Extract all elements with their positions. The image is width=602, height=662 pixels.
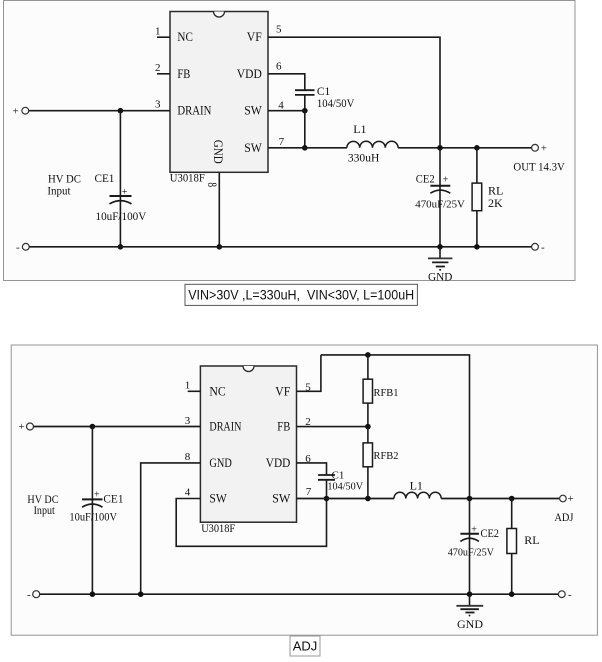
svg-text:CE1: CE1 [95, 173, 115, 185]
svg-text:104/50V: 104/50V [327, 480, 363, 492]
svg-text:U3018F: U3018F [170, 173, 205, 185]
node pin8 rail junction [217, 244, 223, 250]
svg-text:8: 8 [185, 451, 191, 463]
capacitor CE2 plates [430, 174, 450, 193]
svg-text:+: + [471, 524, 477, 535]
frame bottom circuit [11, 345, 597, 635]
svg-text:1: 1 [185, 380, 191, 392]
wire C1 bottom to pin7 line [326, 480, 328, 499]
node pin4 junction [302, 108, 308, 114]
svg-text:ADJ: ADJ [554, 512, 574, 524]
wire bottom rail [40, 593, 558, 595]
wire SW pin7 stub [268, 147, 347, 149]
svg-text:VDD: VDD [237, 67, 262, 81]
svg-text:6: 6 [276, 61, 282, 73]
svg-text:7: 7 [279, 136, 285, 148]
frame top circuit [4, 1, 576, 281]
node pin7 junction [302, 145, 308, 151]
wire SW pin7 to L1 [297, 498, 395, 500]
node RL top junction [474, 145, 480, 151]
wire VDD pin6 to C1 [268, 74, 305, 90]
svg-text:Input: Input [34, 503, 56, 517]
ground symbol bottom [456, 594, 483, 615]
wire C1 bottom to SW pin4 [304, 95, 306, 111]
output + terminal [560, 493, 574, 505]
svg-text:GND: GND [428, 271, 452, 283]
svg-text:5: 5 [276, 23, 282, 35]
svg-text:Input: Input [47, 184, 71, 198]
caption box ADJ [290, 636, 320, 656]
svg-text:3: 3 [155, 99, 161, 111]
svg-text:CE2: CE2 [481, 528, 500, 540]
input - terminal [16, 241, 29, 253]
node RFB1 top junction [365, 352, 371, 358]
svg-text:SW: SW [244, 104, 262, 118]
label RL 2K [488, 184, 503, 210]
capacitor CE2 plates [460, 524, 479, 541]
wire CE1 vertical [119, 111, 121, 247]
svg-text:SW: SW [209, 492, 227, 506]
inductor L1 [347, 141, 398, 148]
svg-text:470uF/25V: 470uF/25V [415, 199, 465, 211]
ground symbol top [428, 247, 452, 270]
input + terminal [13, 105, 29, 117]
capacitor CE1 plates [110, 187, 132, 204]
capacitor CE1 plates [82, 489, 103, 507]
node RL rail junction [509, 591, 515, 597]
input - terminal [27, 589, 40, 601]
output + terminal [532, 143, 547, 155]
svg-text:VF: VF [275, 384, 290, 398]
svg-text:10uF/100V: 10uF/100V [96, 211, 147, 223]
op IC U1 body U3018F [170, 12, 268, 173]
resistor RFB1 [363, 355, 372, 427]
svg-text:OUT 14.3V: OUT 14.3V [513, 161, 565, 173]
wire input+ to DRAIN pin3 [34, 426, 201, 428]
wire CE2 vertical [439, 148, 441, 247]
svg-text:CE2: CE2 [416, 173, 435, 185]
node FB junction [365, 424, 371, 430]
node CE1 bottom junction [118, 244, 124, 250]
pin 1 stub [157, 36, 170, 38]
node RL rail junction [474, 244, 480, 250]
svg-text:GND: GND [211, 140, 225, 164]
svg-text:GND: GND [209, 456, 231, 470]
wire IC pin8 to bottom rail [218, 172, 220, 247]
svg-text:330uH: 330uH [348, 150, 380, 164]
svg-text:+: + [122, 187, 128, 198]
svg-text:+: + [94, 489, 100, 500]
output - terminal [558, 589, 572, 601]
resistor RL [507, 499, 517, 595]
node CE1 top junction [90, 424, 96, 430]
node CE2 top junction [467, 496, 473, 502]
inductor L1 [394, 492, 441, 498]
node CE2 rail junction [467, 591, 473, 597]
node CE2 rail junction [437, 244, 443, 250]
node pin4/C1 junction [324, 496, 330, 502]
wire pin4 node to pin7 line [304, 111, 306, 148]
svg-text:RL: RL [524, 533, 539, 547]
IC U2 body U3018F [200, 366, 296, 522]
node RL top junction [509, 496, 515, 502]
svg-text:+: + [13, 105, 19, 117]
svg-text:-: - [27, 589, 31, 601]
svg-text:RFB2: RFB2 [374, 450, 399, 462]
wire L1 to output terminal [441, 498, 560, 500]
wire VF pin5 to right then down [268, 37, 440, 148]
svg-text:C1: C1 [317, 86, 331, 98]
svg-text:L1: L1 [410, 478, 423, 492]
svg-text:4: 4 [278, 99, 284, 111]
wire input+ to DRAIN pin3 [29, 110, 170, 112]
node pin8 rail junction [138, 591, 144, 597]
svg-text:7: 7 [306, 486, 312, 498]
svg-text:VIN>30V ,L=330uH, VIN<30V, L=: VIN>30V ,L=330uH, VIN<30V, L=100uH [188, 287, 414, 303]
svg-text:RFB1: RFB1 [374, 387, 399, 399]
svg-text:FB: FB [277, 420, 290, 434]
svg-text:FB: FB [177, 67, 190, 81]
svg-text:+: + [19, 421, 25, 433]
wire top rail to CE2 column [321, 355, 470, 499]
pin 1 stub [188, 390, 201, 392]
svg-text:CE1: CE1 [103, 493, 123, 505]
resistor RL [472, 148, 482, 247]
pin 2 stub [157, 73, 170, 75]
wire VF pin5 up to top wire [297, 355, 321, 391]
svg-text:-: - [16, 241, 20, 253]
svg-text:SW: SW [244, 141, 262, 155]
svg-text:DRAIN: DRAIN [209, 420, 241, 434]
svg-text:VDD: VDD [266, 456, 291, 470]
capacitor C1 plates [318, 475, 335, 480]
output - terminal [532, 241, 545, 253]
wire CE2 vertical [469, 499, 471, 595]
svg-text:NC: NC [177, 30, 193, 44]
wire FB pin2 to RFB junction [297, 426, 368, 428]
node CE1 top junction [118, 108, 124, 114]
svg-text:L1: L1 [353, 122, 366, 136]
svg-text:1: 1 [155, 26, 161, 38]
svg-text:+: + [568, 493, 574, 505]
svg-text:SW: SW [272, 492, 290, 506]
input + terminal [19, 421, 34, 433]
svg-text:+: + [541, 143, 547, 155]
wire CE1 vertical [91, 427, 93, 595]
svg-text:10uF/100V: 10uF/100V [69, 512, 117, 524]
svg-text:-: - [541, 241, 545, 253]
svg-text:VF: VF [247, 30, 262, 44]
node CE1 rail junction [90, 591, 96, 597]
svg-text:3: 3 [185, 415, 191, 427]
svg-text:8: 8 [204, 182, 218, 187]
svg-text:-: - [568, 589, 572, 601]
capacitor C1 plates [295, 90, 315, 95]
node RFB2 bottom junction [365, 496, 371, 502]
label HV DC Input [27, 492, 58, 517]
svg-text:104/50V: 104/50V [317, 98, 355, 110]
resistor RFB2 [363, 427, 372, 499]
svg-text:+: + [443, 174, 449, 185]
svg-text:ADJ: ADJ [293, 639, 318, 654]
node CE2 top junction [437, 145, 443, 151]
caption box VIN [185, 284, 417, 305]
wire L1 to output terminal [398, 147, 532, 149]
svg-text:2K: 2K [488, 196, 503, 210]
svg-text:470uF/25V: 470uF/25V [448, 547, 494, 559]
svg-text:DRAIN: DRAIN [177, 104, 211, 118]
label HV DC Input [47, 172, 81, 198]
wire SW pin4 U path [176, 499, 326, 547]
svg-text:2: 2 [155, 62, 161, 74]
svg-text:4: 4 [185, 487, 191, 499]
wire SW pin4 stub [268, 110, 305, 112]
svg-text:NC: NC [209, 384, 225, 398]
svg-text:U3018F: U3018F [201, 523, 235, 535]
wire bottom rail [29, 246, 531, 248]
svg-text:GND: GND [457, 619, 483, 631]
wire VDD pin6 to C1 [297, 463, 327, 475]
wire GND pin8 left and down [141, 463, 201, 594]
